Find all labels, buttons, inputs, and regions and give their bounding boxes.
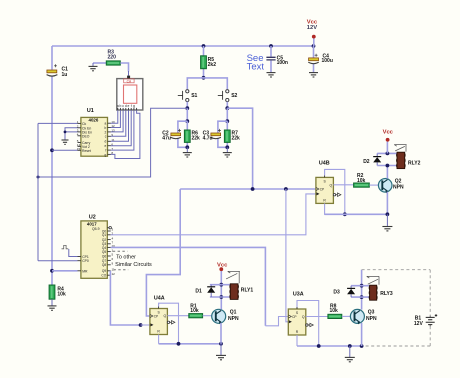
svg-text:Q: Q [163,314,166,318]
svg-text:Text: Text [247,61,265,72]
wire U2 MR [50,269,54,273]
ground [309,73,318,77]
wire U3A R [296,335,298,346]
capacitor C2 [171,133,181,136]
switch S1 [178,90,189,102]
svg-text:NPN: NPN [228,316,239,322]
relay RLY2 contact [394,145,406,152]
wire clock net S1 to U1/U2 [38,108,187,177]
resistor R8 [328,314,342,318]
IC U2 4017 [81,221,107,278]
svg-text:100n: 100n [277,60,288,66]
svg-text:f: f [131,104,132,108]
svg-text:Q: Q [329,183,332,187]
wire S2 debounce [226,108,228,121]
wire U4A S loop [159,303,179,344]
svg-text:U3A: U3A [293,291,304,297]
wire Q2 emitter + ground rail [325,192,388,215]
wire U1 clock-enable ground loop [65,128,78,140]
svg-text:4026: 4026 [89,118,99,123]
wire U4A Q to R1 [167,315,188,317]
battery B1 [426,314,437,326]
svg-text:CP: CP [292,315,296,319]
svg-text:To other: To other [116,254,136,260]
wire top Vcc rail [52,45,314,47]
ground [48,306,57,310]
capacitor C1 [47,64,58,76]
svg-text:e: e [105,144,107,148]
svg-text:12V: 12V [307,25,317,31]
svg-text:Vcc: Vcc [383,129,394,135]
svg-text:47u: 47u [162,135,171,141]
resistor R5 [202,44,206,48]
flip-flop U4A [150,309,168,335]
IC U1 4026 [81,117,108,156]
wire U2 out to U4B D [111,194,316,235]
svg-text:U1: U1 [87,108,94,114]
wire display segment bundle [111,110,118,123]
switch S2 [218,90,229,102]
transistor Q3 [350,309,364,323]
svg-text:Q9: Q9 [102,269,106,273]
relay RLY1 [221,285,230,297]
svg-text:RLY2: RLY2 [408,161,421,167]
svg-text:U2: U2 [89,214,96,220]
capacitor C3 [211,133,221,136]
svg-text:Q3: Q3 [368,310,375,316]
wire U4B S loop [325,169,345,214]
wire display pin8 loop [111,110,140,158]
resistor R4 [51,284,53,286]
svg-text:b: b [119,104,121,108]
svg-text:4.7u: 4.7u [203,135,213,141]
svg-text:220: 220 [108,54,117,60]
svg-text:e: e [128,104,130,108]
svg-text:DEO: DEO [82,134,90,138]
svg-text:g: g [105,153,107,157]
svg-text:d: d [125,104,127,108]
ground [216,355,226,359]
relay RLY3 [362,286,370,297]
resistor R3 [93,62,106,64]
svg-text:RLY1: RLY1 [241,287,254,293]
svg-text:Similar Circuits: Similar Circuits [115,262,152,268]
svg-text:22k: 22k [232,135,241,141]
wire U2 out to U3A/U4A [111,247,266,325]
wire U4A ground rail [159,343,221,345]
wire bus to U3A D [286,189,288,322]
svg-text:CP: CP [320,187,324,191]
svg-text:Q6: Q6 [102,254,106,258]
wire U2 bottom out to U4A D [110,271,140,325]
wire U3A ground rail [297,345,362,347]
wire U1 reset [50,148,54,152]
flip-flop U3A [288,309,306,335]
svg-text:b: b [105,126,107,130]
svg-text:NPN: NPN [366,316,377,322]
svg-text:10k: 10k [190,308,199,314]
diode D1 [210,285,221,297]
capacitor C4 [312,44,316,48]
flip-flop U4B [316,177,334,203]
wire S2 clock to bus [227,108,252,189]
wire clock bus [180,188,316,190]
ground [89,66,98,70]
ground [223,153,232,157]
ground [62,140,69,144]
transistor Q1 [212,309,226,323]
wire U4B Q to R2 [333,184,353,186]
svg-text:Q5: Q5 [102,250,106,254]
wire U4A R [158,335,160,344]
svg-text:12: 12 [112,272,116,276]
svg-text:2: 2 [105,130,107,134]
wire U4B R [325,203,345,214]
svg-text:12V: 12V [414,321,424,327]
resistor R6 [186,121,188,147]
svg-text:CO: CO [101,274,106,278]
wire bus branch to U4A CP [146,189,180,316]
wire S1 debounce [186,108,188,121]
svg-text:RLY3: RLY3 [380,291,393,297]
svg-text:1u: 1u [62,72,68,78]
relay RLY1 contact [226,271,240,283]
clock icon at CP1 [62,245,69,248]
display DSP1 [117,79,143,110]
svg-text:CP0: CP0 [82,259,89,263]
svg-text:S1: S1 [191,93,197,99]
svg-text:10k: 10k [330,308,339,314]
wire to switches [187,78,227,90]
transistor Q2 [378,179,392,193]
wire U3A S loop [297,301,319,347]
diode D2 [376,153,378,165]
dashed external circuit box [362,270,431,346]
ground [345,357,355,361]
svg-text:NPN: NPN [393,185,404,191]
svg-text:S2: S2 [231,93,237,99]
svg-text:CP: CP [154,314,158,318]
wire Q2 collector [386,166,388,179]
svg-text:D3: D3 [333,289,340,295]
svg-text:d: d [105,140,107,144]
svg-text:MR: MR [82,269,88,273]
svg-text:U4B: U4B [319,160,330,166]
svg-text:Q8: Q8 [102,263,106,267]
capacitor C5 [269,44,273,48]
svg-text:Q1: Q1 [102,233,106,237]
svg-text:Q5-9: Q5-9 [92,227,100,231]
svg-text:Q1: Q1 [230,310,237,316]
svg-text:22k: 22k [192,135,201,141]
svg-text:Reset: Reset [82,149,91,153]
ground [183,153,192,157]
wire Q1 collector/emitter [220,271,222,310]
svg-text:Q2: Q2 [395,178,402,184]
wire reset line vertical [51,46,53,285]
resistor R2 [354,183,370,187]
svg-text:Vcc: Vcc [217,263,228,269]
ground [382,227,392,231]
svg-text:10k: 10k [357,178,366,184]
svg-text:Q7: Q7 [102,259,106,263]
diode D3 [351,286,362,297]
svg-text:D1: D1 [195,288,202,294]
svg-text:2k2: 2k2 [208,62,217,68]
svg-text:g: g [133,104,135,108]
ground [267,73,276,77]
svg-text:10k: 10k [57,291,66,297]
resistor R7 [226,121,228,147]
To other Similar Circuits [113,250,128,252]
svg-text:Ck: Ck [82,122,86,126]
relay RLY3 contact [367,276,379,284]
svg-text:100u: 100u [322,58,333,64]
wire Q3 collector/emitter [361,270,363,310]
resistor R1 [189,314,203,318]
wire U3A Q to R8 [306,316,328,318]
svg-text:D2: D2 [363,159,370,165]
svg-text:U4A: U4A [154,295,165,301]
svg-text:Q: Q [302,315,305,319]
relay RLY2 [377,153,397,165]
